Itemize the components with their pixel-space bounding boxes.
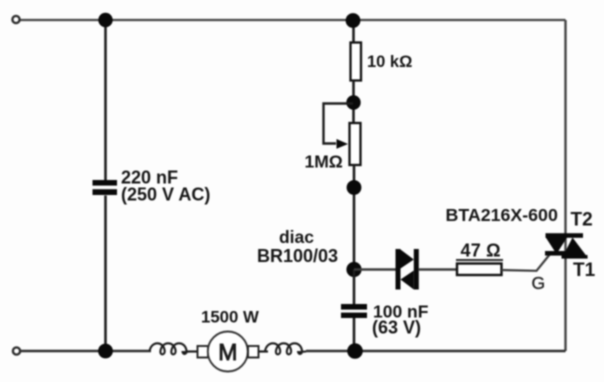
motor M1 left terminal box bbox=[198, 346, 209, 358]
wire bottom rail right bbox=[306, 350, 566, 353]
inductor coil right bbox=[265, 343, 306, 354]
svg-text:10 kΩ: 10 kΩ bbox=[367, 53, 412, 71]
wire middle vertical upper bbox=[352, 20, 355, 43]
triac U1 right triangle bbox=[562, 238, 588, 259]
triac U1 right base bar bbox=[562, 255, 588, 259]
capacitor C2 100nF plates bbox=[341, 304, 367, 310]
svg-text:1MΩ: 1MΩ bbox=[305, 152, 343, 172]
wire cap to bottom rail bbox=[353, 318, 356, 351]
resistor R2 body bbox=[457, 264, 502, 276]
terminal bottom-left bbox=[13, 347, 20, 354]
svg-text:(63 V): (63 V) bbox=[372, 318, 421, 338]
triac U1 left triangle bbox=[546, 238, 567, 255]
terminal top-left bbox=[12, 16, 19, 23]
wire top rail bbox=[20, 19, 566, 21]
potentiometer P1 wiper arrow bbox=[337, 139, 349, 149]
triac U1 top bar bbox=[546, 233, 584, 238]
wire node to diac bbox=[354, 268, 396, 270]
resistor R2 47 ohm label underline bbox=[456, 259, 503, 261]
triac U1 bottom bar bbox=[545, 251, 567, 256]
wire right rail bbox=[564, 20, 566, 351]
wire bottom rail left bbox=[17, 350, 151, 352]
svg-text:G: G bbox=[532, 273, 546, 293]
wire coil to motor bbox=[186, 350, 198, 352]
svg-text:BTA216X-600: BTA216X-600 bbox=[446, 205, 558, 225]
diac D1 upper triangle bbox=[401, 250, 414, 269]
svg-text:BR100/03: BR100/03 bbox=[257, 246, 338, 266]
capacitor C1 220nF plates bbox=[93, 180, 118, 186]
svg-text:1500 W: 1500 W bbox=[201, 308, 259, 327]
wire pot to diac node bbox=[353, 165, 356, 270]
wire diac to R2 bbox=[419, 268, 457, 270]
svg-text:47 Ω: 47 Ω bbox=[461, 241, 501, 261]
wire motor to right coil bbox=[258, 350, 268, 352]
node junction bottom-left bbox=[98, 344, 113, 359]
wire left vertical bbox=[104, 20, 107, 180]
node junction top-middle bbox=[346, 13, 361, 28]
inductor coil left bbox=[150, 343, 191, 354]
diac D1 lower triangle bbox=[401, 271, 414, 290]
svg-text:diac: diac bbox=[279, 227, 314, 247]
svg-text:T2: T2 bbox=[571, 210, 593, 231]
wire node to 100nF cap bbox=[353, 270, 356, 305]
motor M1 body bbox=[208, 332, 248, 372]
wire R2 to gate bbox=[502, 254, 551, 271]
potentiometer P1 body bbox=[350, 123, 361, 165]
node junction below R1 bbox=[346, 95, 360, 109]
svg-text:(250 V AC): (250 V AC) bbox=[121, 185, 210, 205]
svg-text:M: M bbox=[218, 339, 237, 365]
wire pot wiper loop bbox=[324, 104, 354, 144]
svg-text:T1: T1 bbox=[573, 260, 596, 281]
diac D1 left bar bbox=[396, 249, 401, 290]
resistor R1 10k body bbox=[351, 43, 362, 81]
diac D1 right bar bbox=[414, 249, 419, 290]
wire resistor to pot bbox=[352, 81, 355, 123]
node junction diac branch bbox=[346, 262, 361, 277]
node junction top-left bbox=[98, 13, 112, 27]
node junction bottom bbox=[347, 343, 363, 359]
node junction below pot bbox=[347, 180, 362, 195]
motor M1 right terminal box bbox=[248, 346, 259, 358]
